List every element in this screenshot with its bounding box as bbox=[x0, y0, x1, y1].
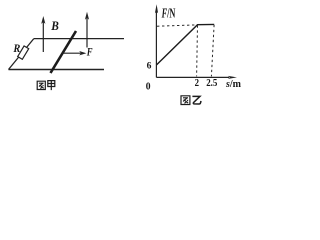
svg-text:B: B bbox=[50, 19, 59, 33]
x-axis s/m bbox=[156, 76, 237, 79]
svg-text:F: F bbox=[86, 44, 93, 58]
svg-text:2: 2 bbox=[195, 77, 200, 89]
curve F(s) bbox=[156, 24, 214, 65]
svg-text:0: 0 bbox=[146, 81, 151, 92]
svg-text:2.5: 2.5 bbox=[206, 77, 218, 89]
axis label F/N bbox=[161, 6, 175, 21]
dashed horizontal at F max bbox=[157, 25, 197, 26]
force arrow F bbox=[62, 51, 87, 55]
caption 图乙 bbox=[181, 96, 201, 105]
svg-text:6: 6 bbox=[147, 61, 152, 72]
field arrow right bbox=[85, 12, 89, 48]
y-axis F/N bbox=[155, 4, 158, 77]
caption 图甲 bbox=[37, 81, 55, 91]
label R bbox=[13, 41, 21, 55]
svg-text:F/N: F/N bbox=[161, 6, 175, 21]
label B bbox=[50, 19, 59, 33]
wire left edge bbox=[9, 39, 34, 70]
svg-text:R: R bbox=[13, 41, 21, 55]
tick label 6 bbox=[147, 61, 152, 72]
tick label 2.5 bbox=[206, 77, 218, 89]
dashed vertical at s=2.5 bbox=[211, 25, 214, 77]
label F bbox=[86, 44, 93, 58]
tick label 0 bbox=[146, 81, 151, 92]
axis label s/m bbox=[225, 78, 241, 90]
bottom rail bbox=[9, 69, 105, 71]
rod (conductor) bbox=[51, 31, 77, 73]
tick label 2 bbox=[195, 77, 200, 89]
svg-text:s/m: s/m bbox=[225, 78, 241, 90]
dashed vertical at s=2 bbox=[196, 25, 199, 76]
resistor R1 bbox=[18, 46, 29, 59]
field arrow B left bbox=[41, 16, 45, 52]
top rail bbox=[34, 38, 124, 40]
